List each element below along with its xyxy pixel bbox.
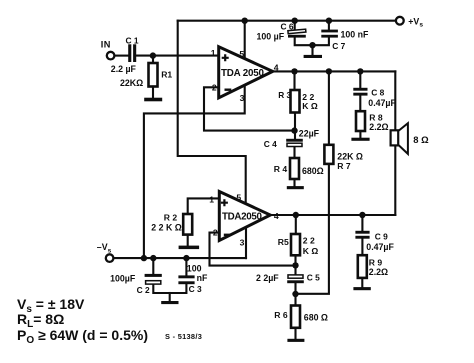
svg-text:C 3: C 3: [189, 284, 202, 294]
svg-text:0.47µF: 0.47µF: [366, 242, 394, 252]
svg-text:R 7: R 7: [337, 161, 351, 171]
svg-text:TDA2050: TDA2050: [222, 212, 263, 223]
svg-text:2 2 K Ω: 2 2 K Ω: [151, 223, 182, 233]
svg-text:IN: IN: [101, 40, 111, 50]
svg-text:R5: R5: [278, 237, 289, 247]
svg-text:R1: R1: [161, 70, 172, 80]
svg-text:C 7: C 7: [332, 41, 345, 51]
svg-text:22KΩ: 22KΩ: [120, 78, 143, 88]
svg-text:R 9: R 9: [369, 258, 383, 268]
svg-text:100 nF: 100 nF: [341, 30, 369, 40]
svg-text:3: 3: [240, 93, 245, 103]
svg-text:100 µF: 100 µF: [257, 31, 285, 41]
svg-text:100µF: 100µF: [110, 274, 136, 284]
svg-text:680Ω: 680Ω: [302, 166, 324, 176]
svg-text:R 6: R 6: [274, 310, 288, 320]
svg-text:R 3: R 3: [278, 90, 291, 100]
svg-text:100: 100: [187, 264, 202, 274]
svg-text:K Ω: K Ω: [303, 246, 319, 256]
svg-text:K Ω: K Ω: [302, 101, 318, 111]
svg-text:C 4: C 4: [264, 139, 277, 149]
svg-text:TDA 2050: TDA 2050: [221, 68, 265, 79]
svg-text:5: 5: [236, 193, 241, 203]
svg-text:3: 3: [240, 237, 245, 247]
svg-text:0.47µF: 0.47µF: [368, 98, 396, 108]
svg-text:2.2 µF: 2.2 µF: [111, 64, 137, 74]
svg-text:C 5: C 5: [307, 273, 320, 283]
svg-text:2.2Ω: 2.2Ω: [369, 267, 388, 277]
svg-text:1: 1: [209, 194, 214, 204]
svg-text:C 2: C 2: [137, 285, 150, 295]
svg-text:2.2Ω: 2.2Ω: [369, 122, 388, 132]
svg-text:8 Ω: 8 Ω: [413, 134, 429, 145]
svg-text:2 2: 2 2: [303, 236, 315, 246]
svg-text:2: 2: [212, 83, 217, 93]
svg-text:2 2µF: 2 2µF: [256, 273, 279, 283]
svg-text:22µF: 22µF: [299, 129, 320, 139]
svg-text:R 2: R 2: [164, 213, 178, 223]
svg-text:680 Ω: 680 Ω: [304, 312, 328, 322]
svg-text:C 1: C 1: [126, 35, 139, 45]
svg-text:2: 2: [213, 227, 218, 237]
svg-text:R 4: R 4: [274, 164, 288, 174]
svg-text:S - 5138/3: S - 5138/3: [165, 332, 202, 341]
svg-text:R 8: R 8: [369, 112, 383, 122]
svg-text:5: 5: [239, 49, 244, 59]
svg-text:nF: nF: [197, 273, 208, 283]
svg-text:C 9: C 9: [375, 232, 388, 242]
svg-text:C 8: C 8: [371, 88, 384, 98]
svg-text:22K Ω: 22K Ω: [337, 151, 363, 161]
svg-text:C 6: C 6: [281, 21, 294, 31]
svg-text:4: 4: [274, 211, 279, 221]
svg-text:1: 1: [211, 48, 216, 58]
svg-text:4: 4: [274, 63, 279, 73]
